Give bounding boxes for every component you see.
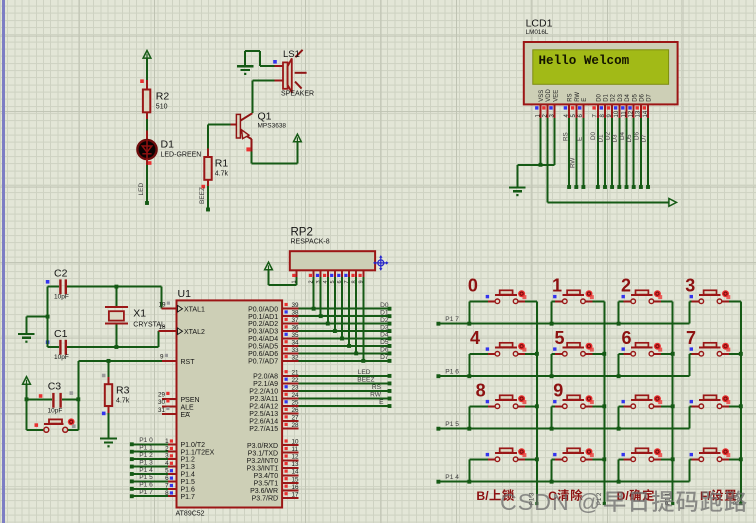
label AT89C52 (176, 511, 205, 518)
svg-text:10pF: 10pF (48, 408, 63, 415)
svg-text:6: 6 (622, 328, 632, 348)
svg-text:P3.3/INT1: P3.3/INT1 (247, 465, 279, 472)
label keypad digit 4 (470, 328, 480, 348)
resistor R3 (105, 361, 112, 406)
svg-text:P3.6/WR: P3.6/WR (250, 488, 278, 495)
red state marker D1 (148, 161, 152, 165)
resistor R2 (143, 90, 150, 113)
svg-text:21: 21 (292, 369, 300, 376)
wire Q1 base to R1 (208, 124, 238, 157)
label C2 value 10pF (54, 267, 69, 300)
svg-text:EA: EA (181, 412, 191, 419)
RP2 pin 9 wire to P0.7 (358, 270, 364, 361)
U1 pin 28 P2.7/A15 (249, 422, 299, 433)
U1 pin 9 RST (160, 354, 195, 366)
svg-text:13: 13 (292, 461, 300, 468)
svg-text:9: 9 (553, 381, 563, 401)
U1 pin 24 P2.3/A11 wire to net RW (250, 392, 392, 403)
svg-text:25: 25 (292, 399, 300, 406)
svg-text:VSS: VSS (539, 90, 545, 102)
svg-text:Q1: Q1 (258, 111, 272, 123)
U1 pin 36 P0.3/AD3 wire to net D3 (248, 324, 391, 335)
svg-text:RS: RS (568, 93, 574, 101)
svg-text:P2.6/A14: P2.6/A14 (249, 419, 278, 426)
wire R2 to D1 (146, 112, 148, 141)
svg-text:P2.2/A10: P2.2/A10 (249, 389, 278, 396)
svg-text:D2: D2 (611, 93, 617, 101)
U1 pin 15 P3.5/T1 (254, 476, 299, 487)
LCD pins 1-14 with numbers (535, 104, 649, 117)
push button key B (689, 405, 691, 407)
svg-text:36: 36 (292, 324, 300, 331)
svg-text:P2.7/A15: P2.7/A15 (249, 426, 278, 433)
wire D1 to node LED (145, 159, 149, 205)
push button key 3 (689, 300, 691, 302)
net label BEEZ (199, 187, 206, 204)
svg-text:BEEZ: BEEZ (199, 187, 206, 204)
svg-text:32: 32 (292, 354, 300, 361)
svg-text:D6: D6 (633, 131, 640, 140)
wire ground to LS1 pin1 (245, 51, 274, 66)
net label LED (138, 183, 145, 196)
svg-text:12: 12 (629, 110, 635, 117)
wire RST to U1 pin9 (78, 359, 162, 363)
svg-text:12: 12 (292, 454, 300, 461)
svg-text:LED: LED (138, 183, 145, 196)
svg-text:XTAL2: XTAL2 (184, 329, 205, 336)
svg-text:RW: RW (570, 158, 577, 168)
svg-text:17: 17 (292, 491, 300, 498)
svg-text:P1.2: P1.2 (181, 457, 196, 464)
speaker LS1 pins (274, 66, 283, 80)
speaker LS1 body (283, 58, 292, 92)
svg-text:4: 4 (470, 328, 480, 348)
svg-text:P1.0/T2: P1.0/T2 (181, 442, 206, 449)
svg-text:P0.6/AD6: P0.6/AD6 (248, 351, 278, 358)
resistor R1 (204, 157, 211, 180)
svg-text:VDD: VDD (546, 88, 552, 101)
U1 pin 32 P0.7/AD7 wire to net D7 (248, 354, 391, 365)
U1 pin 17 P3.7/RD (252, 491, 299, 502)
svg-text:RS: RS (562, 132, 569, 141)
svg-text:510: 510 (156, 104, 168, 111)
svg-text:7: 7 (165, 482, 169, 489)
svg-text:LED-GREEN: LED-GREEN (161, 152, 202, 159)
U1 pin 13 P3.3/INT1 (247, 461, 299, 472)
svg-text:LED: LED (358, 369, 371, 376)
U1 pin 26 P2.5/A13 (249, 407, 299, 418)
svg-text:P1 6: P1 6 (139, 482, 153, 489)
svg-text:P1 2: P1 2 (139, 452, 153, 459)
gray state marker R3 top (102, 374, 106, 378)
wire LCD VEE to ground net (554, 118, 556, 165)
svg-text:4: 4 (165, 460, 169, 467)
label C1 value 10pF (54, 328, 69, 361)
svg-text:RW: RW (370, 392, 382, 399)
U1 pin 10 P3.0/RXD (247, 439, 299, 450)
svg-text:P3.5/T1: P3.5/T1 (254, 480, 279, 487)
svg-text:D3: D3 (612, 134, 619, 143)
svg-text:26: 26 (292, 407, 300, 414)
svg-text:AT89C52: AT89C52 (176, 511, 205, 518)
wires LCD RS RW E D0-D7 (567, 118, 650, 189)
svg-text:39: 39 (292, 302, 300, 309)
power flag VCC (Q1 emitter) (294, 134, 302, 142)
svg-text:P3.0/RXD: P3.0/RXD (247, 443, 278, 450)
label U1 (178, 288, 192, 300)
svg-text:10pF: 10pF (54, 354, 69, 361)
svg-text:PSEN: PSEN (181, 397, 200, 404)
red state marker R1 (201, 185, 205, 189)
svg-text:XTAL1: XTAL1 (184, 307, 205, 314)
push button key A (619, 405, 624, 407)
ground (LCD) (509, 165, 555, 196)
svg-text:P1 3: P1 3 (139, 459, 153, 466)
label X1 CRYSTAL (133, 308, 165, 329)
push button key 4 (469, 353, 488, 355)
capacitor C3 (52, 393, 62, 408)
svg-text:3: 3 (165, 453, 169, 460)
label Q1 MPS3638 (258, 111, 287, 130)
wire Q1 collector to LS1 (252, 81, 274, 114)
svg-text:P3.7/RD: P3.7/RD (252, 496, 278, 503)
push button key B/lock (469, 458, 488, 460)
svg-text:27: 27 (292, 414, 300, 421)
label F/set (700, 489, 736, 503)
svg-text:P0.4/AD4: P0.4/AD4 (248, 336, 278, 343)
U1 pin 3 P1.2 with net P1 2 (130, 452, 195, 464)
svg-text:MPS3638: MPS3638 (258, 123, 287, 130)
resistor pack RP2 body (290, 251, 375, 270)
label keypad digit 8 (476, 381, 486, 401)
svg-text:P2.0/A8: P2.0/A8 (253, 374, 278, 381)
push button key C/clear (552, 458, 556, 460)
U1 pin 8 P1.7 with net P1 7 (130, 489, 195, 501)
red state marker Q1 emitter (246, 147, 250, 151)
svg-text:P1.4: P1.4 (181, 472, 196, 479)
svg-text:D1: D1 (604, 93, 610, 101)
wire C2 to XTAL1 node (67, 285, 161, 309)
svg-text:LM016L: LM016L (526, 29, 549, 36)
label RP2 RESPACK-8 (291, 227, 330, 246)
svg-text:D7: D7 (380, 354, 389, 361)
blue state marker C1 (46, 340, 50, 344)
ground (crystal) (18, 334, 35, 343)
RP2 pin 7 wire to P0.5 (344, 270, 350, 346)
svg-text:11: 11 (621, 111, 627, 118)
speaker LS1 sound lines (295, 50, 307, 89)
svg-text:9: 9 (160, 354, 164, 361)
U1 pin 6 P1.5 with net P1 5 (130, 474, 195, 486)
push button key 5 (552, 353, 556, 355)
U1 pin 33 P0.6/AD6 wire to net D6 (248, 347, 391, 358)
push button key 1 (552, 300, 556, 302)
svg-text:Hello Welcom: Hello Welcom (539, 54, 630, 68)
RP2 pin 6 wire to P0.4 (337, 270, 343, 338)
svg-text:D6: D6 (640, 93, 646, 101)
svg-text:D4: D4 (625, 93, 631, 101)
U1 pin 4 P1.3 with net P1 3 (130, 459, 195, 471)
push button key 8 (469, 405, 488, 407)
svg-text:P1 1: P1 1 (139, 445, 153, 452)
RP2 pin 1 wire to power flag (269, 270, 298, 285)
svg-text:14: 14 (292, 469, 300, 476)
U1 pin 1 P1.0/T2 with net P1 0 (130, 437, 205, 449)
svg-text:CSDN @: CSDN @ (500, 489, 602, 515)
svg-text:P0.5/AD5: P0.5/AD5 (248, 344, 278, 351)
svg-text:LS1: LS1 (283, 49, 300, 60)
svg-text:RP2: RP2 (291, 227, 313, 239)
svg-text:D0: D0 (590, 131, 597, 140)
svg-text:D2: D2 (380, 317, 389, 324)
svg-text:8: 8 (476, 381, 486, 401)
svg-text:29: 29 (158, 392, 166, 399)
U1 pin 5 P1.4 with net P1 4 (130, 467, 195, 479)
svg-text:10pF: 10pF (54, 293, 69, 300)
svg-text:23: 23 (292, 384, 300, 391)
svg-text:D1: D1 (597, 134, 604, 143)
label keypad digit 1 (552, 276, 562, 296)
label LS1 SPEAKER (281, 49, 314, 98)
svg-text:10: 10 (292, 439, 300, 446)
keypad row wire P1 4 (436, 474, 689, 484)
power flag VCC (reset) (23, 377, 31, 400)
LCD pin names (539, 88, 653, 101)
keypad row wire P1 6 (436, 368, 689, 378)
push button key F/set (689, 458, 691, 460)
svg-text:E: E (577, 137, 584, 141)
svg-text:D2: D2 (605, 131, 612, 140)
mcu U1 AT89C52 body (177, 300, 283, 507)
svg-text:6: 6 (165, 475, 169, 482)
label keypad digit 6 (622, 328, 632, 348)
U1 pin 7 P1.6 with net P1 6 (130, 482, 195, 494)
push button (reset) (44, 418, 76, 432)
svg-text:13: 13 (636, 110, 642, 117)
svg-text:18: 18 (158, 324, 166, 331)
svg-text:33: 33 (292, 347, 300, 354)
U1 pin 2 P1.1/T2EX with net P1 1 (130, 445, 215, 457)
svg-text:SPEAKER: SPEAKER (281, 91, 314, 98)
svg-text:34: 34 (292, 339, 300, 346)
U1 pin 31 EA (158, 407, 190, 419)
U1 pin 39 P0.0/AD0 wire to net D0 (248, 302, 391, 313)
LCD LM016L body (524, 42, 678, 104)
wire LCD VDD to power (548, 118, 669, 203)
push button key 2 (619, 300, 624, 302)
label R2 value 510 (156, 91, 170, 111)
svg-text:P0.2/AD2: P0.2/AD2 (248, 321, 278, 328)
ground (R3) (100, 439, 117, 448)
U1 pin 11 P3.1/TXD (248, 446, 299, 457)
svg-text:28: 28 (292, 422, 300, 429)
svg-text:P2.1/A9: P2.1/A9 (253, 381, 278, 388)
svg-text:P3.2/INT0: P3.2/INT0 (247, 458, 279, 465)
push button key 7 (689, 353, 691, 355)
wire C3 to RST vertical (62, 397, 80, 401)
U1 pin 14 P3.4/T0 (254, 469, 299, 480)
LCD text Hello Welcom (539, 54, 630, 68)
svg-text:C1: C1 (54, 328, 68, 340)
label keypad digit 2 (621, 276, 631, 296)
U1 pin 19 XTAL1 (158, 302, 205, 314)
label keypad digit 0 (468, 276, 478, 296)
svg-text:P1 5: P1 5 (139, 474, 153, 481)
push button key 0 (469, 300, 488, 302)
keypad column wire P1 2 (597, 301, 606, 505)
svg-text:P0.3/AD3: P0.3/AD3 (248, 329, 278, 336)
power flag VCC (RP2) (265, 262, 273, 270)
svg-text:22: 22 (292, 377, 300, 384)
svg-text:D4: D4 (380, 332, 389, 339)
RP2 pin 8 wire to P0.6 (351, 270, 357, 353)
svg-text:P1 5: P1 5 (445, 421, 459, 428)
svg-text:D1: D1 (161, 139, 175, 151)
svg-text:35: 35 (292, 332, 300, 339)
svg-text:19: 19 (158, 302, 166, 309)
push button key D/enter (619, 458, 624, 460)
svg-text:R1: R1 (215, 158, 229, 170)
svg-text:D5: D5 (632, 93, 638, 101)
svg-text:P1.3: P1.3 (181, 464, 196, 471)
wire LCD VSS to ground (539, 118, 543, 167)
origin marker RP2 (373, 255, 389, 271)
U1 pin 34 P0.5/AD5 wire to net D5 (248, 339, 391, 350)
power flag (LCD VDD) (669, 199, 677, 207)
svg-text:D7: D7 (640, 134, 647, 143)
svg-text:ALE: ALE (181, 405, 195, 412)
U1 pin 12 P3.2/INT0 (247, 454, 299, 465)
wire button to RST (68, 361, 79, 430)
keypad column wire P1 3 (530, 301, 539, 505)
svg-text:LCD1: LCD1 (526, 18, 553, 30)
svg-text:38: 38 (292, 310, 300, 317)
svg-text:P1 7: P1 7 (139, 489, 153, 496)
svg-text:P1 7: P1 7 (445, 316, 459, 323)
keypad row wire P1 7 (436, 316, 689, 326)
svg-text:D5: D5 (380, 339, 389, 346)
capacitor C2 (59, 279, 67, 294)
label C3 value 10pF (48, 381, 63, 415)
svg-text:1: 1 (165, 438, 169, 445)
net labels RS RW E on LCD wires (562, 132, 583, 168)
crystal X1 (105, 287, 128, 347)
svg-text:5: 5 (165, 468, 169, 475)
svg-text:16: 16 (292, 484, 300, 491)
U1 pin 29 PSEN (158, 392, 200, 404)
svg-text:P2.4/A12: P2.4/A12 (249, 404, 278, 411)
svg-text:D7: D7 (647, 93, 653, 101)
U1 pin 23 P2.2/A10 wire to net RS (249, 384, 391, 395)
svg-text:P1 4: P1 4 (445, 474, 459, 481)
svg-text:2: 2 (621, 276, 631, 296)
label LCD1 LM016L (526, 18, 553, 36)
svg-text:D6: D6 (380, 347, 389, 354)
svg-text:D3: D3 (380, 324, 389, 331)
svg-text:2: 2 (165, 445, 169, 452)
keypad column wire P1 0 (734, 301, 743, 505)
wire VCC to R2 (146, 80, 148, 90)
wire Q1 emitter to power (252, 142, 298, 164)
svg-text:C2: C2 (54, 267, 68, 279)
svg-text:R2: R2 (156, 91, 170, 103)
svg-text:0: 0 (468, 276, 478, 296)
push button key 6 (619, 353, 624, 355)
label keypad digit 7 (686, 328, 696, 348)
U1 pin 35 P0.4/AD4 wire to net D4 (248, 332, 391, 343)
wire R3 to ground (108, 406, 110, 439)
svg-text:P1.6: P1.6 (181, 486, 196, 493)
svg-text:P0.1/AD1: P0.1/AD1 (248, 314, 278, 321)
label R1 value 4.7k (215, 158, 229, 178)
watermark CSDN (500, 489, 747, 515)
svg-text:31: 31 (158, 407, 166, 414)
label keypad digit 5 (555, 328, 565, 348)
svg-text:P3.1/TXD: P3.1/TXD (248, 450, 278, 457)
RP2 pin 3 wire to P0.1 (316, 270, 322, 316)
U1 pin 18 XTAL2 (158, 324, 205, 336)
label C/clear (548, 489, 582, 503)
svg-text:4.7k: 4.7k (116, 398, 130, 405)
U1 pin 25 P2.4/A12 wire to net E (249, 399, 391, 410)
net labels D0-D7 on LCD wires (590, 131, 647, 142)
blue state marker LS1 (273, 60, 277, 64)
wire R1 to node BEEZ (206, 180, 210, 212)
svg-text:7: 7 (686, 328, 696, 348)
U1 pin 30 ALE (158, 399, 194, 411)
push button key 9 (552, 405, 556, 407)
ground (speaker) (237, 51, 254, 75)
svg-text:10: 10 (614, 110, 620, 117)
svg-text:D5: D5 (626, 134, 633, 143)
svg-text:P1 0: P1 0 (139, 437, 153, 444)
svg-text:P3.4/T0: P3.4/T0 (254, 473, 279, 480)
RP2 pin 4 wire to P0.2 (323, 270, 329, 323)
svg-text:RS: RS (372, 384, 382, 391)
label keypad digit 9 (553, 381, 563, 401)
RP2 pin 5 wire to P0.3 (330, 270, 336, 331)
U1 pin 21 P2.0/A8 wire to net LED (253, 369, 391, 380)
svg-text:P1.7: P1.7 (181, 494, 196, 501)
svg-text:VEE: VEE (553, 90, 559, 102)
svg-text:4.7k: 4.7k (215, 171, 229, 178)
svg-text:24: 24 (292, 392, 300, 399)
red state marker button (35, 423, 39, 427)
svg-text:P0.0/AD0: P0.0/AD0 (248, 306, 278, 313)
svg-text:E: E (379, 399, 384, 406)
U1 pin 27 P2.6/A14 (249, 414, 299, 425)
svg-text:P2.3/A11: P2.3/A11 (250, 396, 278, 403)
svg-text:P1 6: P1 6 (445, 368, 459, 375)
label B/lock (476, 489, 514, 503)
label D1 LED-GREEN (161, 139, 202, 159)
svg-text:E: E (582, 98, 588, 102)
gray state marker C3 right (70, 391, 74, 395)
label R3 value 4.7k (116, 385, 130, 405)
svg-text:5: 5 (555, 328, 565, 348)
LCD screen (533, 50, 669, 85)
U1 pin 38 P0.1/AD1 wire to net D1 (248, 309, 391, 320)
label keypad digit 3 (685, 276, 695, 296)
svg-text:RW: RW (575, 92, 581, 102)
label D/enter (617, 489, 655, 503)
svg-text:C3: C3 (48, 381, 62, 393)
U1 pin 16 P3.6/WR (250, 484, 299, 495)
svg-text:37: 37 (292, 317, 300, 324)
power flag VCC (LED branch) (143, 51, 151, 81)
svg-text:D4: D4 (619, 131, 626, 140)
blue state marker R3 bottom (102, 412, 106, 416)
